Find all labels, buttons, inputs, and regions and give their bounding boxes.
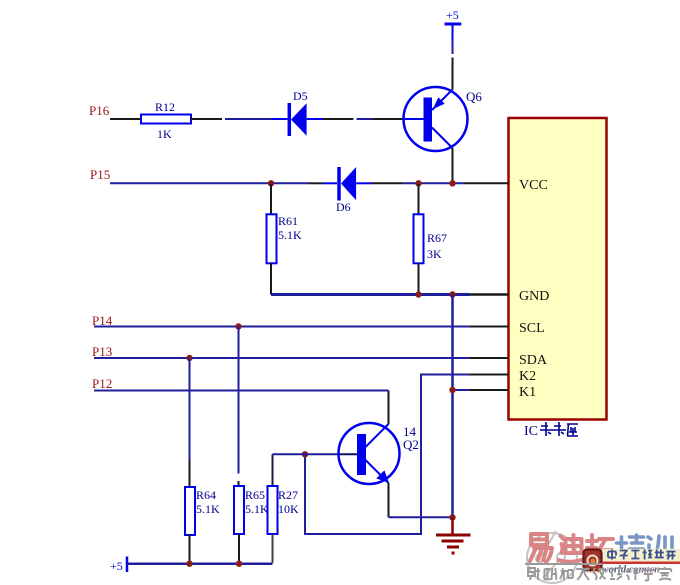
node junction K1 <box>449 387 455 393</box>
svg-text:R27: R27 <box>278 488 298 502</box>
diode D6 <box>336 167 356 214</box>
svg-text:R67: R67 <box>427 231 447 245</box>
svg-text:P15: P15 <box>90 167 110 182</box>
node junction R64-bottom <box>186 561 192 567</box>
wire P13 to SDA <box>94 357 470 359</box>
node junction R67-bottom <box>415 291 421 297</box>
svg-text:D6: D6 <box>336 200 351 214</box>
label IC卡卡座 <box>524 424 538 439</box>
node junction GND-drop <box>449 291 455 297</box>
svg-text:+5: +5 <box>110 559 123 573</box>
wire GND bus <box>271 293 470 296</box>
wire Q2 emitter to ground <box>388 483 390 517</box>
svg-text:P16: P16 <box>89 103 110 118</box>
svg-text:R64: R64 <box>196 488 216 502</box>
svg-text:P12: P12 <box>92 376 112 391</box>
svg-text:Q2: Q2 <box>403 437 419 452</box>
pin K2 <box>469 374 509 376</box>
pin SCL <box>470 326 509 328</box>
transistor Q2 <box>339 423 419 484</box>
pin SDA <box>470 357 509 359</box>
wire D5 to Q6 base <box>307 118 323 120</box>
svg-text:R12: R12 <box>155 100 175 114</box>
node junction R65-bottom <box>236 561 242 567</box>
watermark gray logo circle <box>527 531 577 583</box>
svg-text:5.1K: 5.1K <box>245 502 269 516</box>
node junction K2/Q2-base <box>302 451 308 457</box>
svg-text:+5: +5 <box>446 8 459 22</box>
watermark gray slogan 射频和天线设计专家 <box>528 567 671 581</box>
node junction at ground <box>449 514 455 520</box>
svg-text:GND: GND <box>519 289 549 304</box>
svg-text:P13: P13 <box>92 344 112 359</box>
transistor Q6 <box>404 87 483 151</box>
svg-text:10K: 10K <box>278 502 299 516</box>
wire Q2 base <box>273 453 339 455</box>
watermark red glyph 培 <box>616 535 644 561</box>
wire P12 to Q2 collector <box>94 390 389 392</box>
watermark red glyph 拓 <box>587 535 613 561</box>
label glyph 座 <box>567 424 578 436</box>
watermark gray underline <box>525 563 602 565</box>
watermark red underline <box>602 562 680 565</box>
label glyph 卡 (2) <box>553 422 566 436</box>
svg-text:VCC: VCC <box>519 178 548 193</box>
wire P16 to R12 <box>110 118 141 120</box>
label glyph 卡 <box>540 422 553 436</box>
node junction R67-top <box>415 180 421 186</box>
power +5 (top) <box>445 8 462 54</box>
resistor R27 <box>268 486 300 563</box>
resistor R65 <box>234 486 269 563</box>
resistor R67 <box>414 184 448 295</box>
watermark yellow backdrop band <box>602 549 680 562</box>
power +5 (bottom) <box>110 557 273 574</box>
wire K2 net <box>305 375 469 535</box>
node junction R61-top <box>268 180 274 186</box>
svg-text:R61: R61 <box>278 214 298 228</box>
IC card socket U1 body <box>509 118 607 420</box>
svg-text:K1: K1 <box>519 385 536 400</box>
wire K1 stub <box>453 389 471 391</box>
svg-text:3K: 3K <box>427 247 442 261</box>
resistor R12 <box>141 115 191 124</box>
resistor R61 <box>267 184 303 295</box>
svg-text:D5: D5 <box>293 89 308 103</box>
pin K1 <box>470 389 509 391</box>
watermark eeworld icon <box>584 550 602 571</box>
pin GND <box>470 293 509 296</box>
svg-text:R65: R65 <box>245 488 265 502</box>
diode D5 <box>289 89 307 136</box>
watermark red glyph 训 <box>648 536 672 561</box>
svg-text:SDA: SDA <box>519 353 548 368</box>
wire R27 top riser <box>272 454 274 486</box>
ground symbol <box>436 517 471 553</box>
node junction Q6-collector <box>449 180 455 186</box>
svg-text:5.1K: 5.1K <box>278 228 302 242</box>
svg-text:K2: K2 <box>519 369 536 384</box>
wire R12 to D5 <box>191 118 222 120</box>
svg-text:1K: 1K <box>157 127 172 141</box>
wire +5 to Q6 emitter <box>452 58 454 90</box>
node junction P13/R64 <box>186 355 192 361</box>
wire P14 to SCL <box>94 326 470 328</box>
svg-text:SCL: SCL <box>519 321 545 336</box>
resistor R64 <box>185 487 220 563</box>
svg-text:Q6: Q6 <box>466 89 482 104</box>
wire P15 (VCC net) <box>110 182 310 184</box>
svg-text:5.1K: 5.1K <box>196 502 220 516</box>
wire Q6 collector down to VCC line <box>452 148 454 183</box>
watermark navy text 电子工程世界 <box>608 550 676 560</box>
wire D6 to VCC pin <box>356 182 371 184</box>
pin VCC <box>464 182 509 184</box>
svg-text:IC: IC <box>524 424 538 439</box>
wire P14 drop to R65 <box>238 327 240 474</box>
watermark red glyph 易 <box>530 534 552 562</box>
watermark red glyph 迪 <box>559 535 585 562</box>
node junction P14/R65 <box>235 323 241 329</box>
wire P13 drop to R64 <box>189 358 191 460</box>
wire ground vertical <box>451 295 454 518</box>
